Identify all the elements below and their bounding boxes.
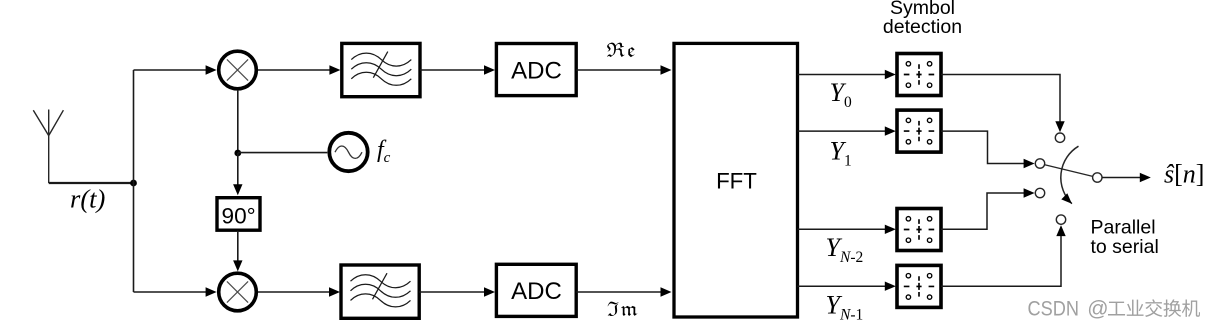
svg-text:ADC: ADC [511, 57, 562, 84]
svg-text:CSDN: CSDN [1028, 297, 1080, 320]
mixer M1 (I branch) [219, 51, 257, 89]
svg-text:YN-2: YN-2 [826, 233, 864, 266]
switch contact top [1055, 133, 1064, 142]
symbol detector D3 [897, 209, 941, 251]
antenna [33, 110, 63, 184]
wire FFT output Y1 [798, 130, 887, 132]
node B (LO junction) [234, 150, 241, 157]
FFT block [674, 43, 798, 317]
svg-text:to serial: to serial [1091, 236, 1159, 258]
switch pivot contact [1093, 173, 1102, 182]
wire D2 to switch left contact 1 [941, 131, 1024, 163]
svg-text:YN-1: YN-1 [826, 291, 864, 324]
wire oscillator to node B [238, 152, 327, 154]
wire D4 to switch bottom contact [941, 236, 1061, 287]
wire ADC1 to FFT [576, 69, 661, 71]
svg-text:90°: 90° [222, 203, 256, 228]
switch rotation arc arrow [1061, 146, 1079, 204]
svg-text:@: @ [1087, 297, 1108, 320]
wire mixer M2 to filter F2 [258, 291, 330, 293]
filter F2 (lowpass) [341, 265, 419, 318]
wire antenna to junction [49, 182, 134, 184]
switch contact bottom [1056, 215, 1065, 224]
node junction on trunk [130, 180, 137, 187]
wire trunk vertical [133, 70, 135, 292]
wire 90 deg box to mixer M2 [237, 231, 239, 262]
svg-text:fc: fc [377, 137, 391, 166]
switch contact left 1 [1035, 159, 1044, 168]
label Re (real part, fraktur) [607, 43, 635, 57]
wire FFT output YN-2 [798, 228, 887, 230]
wire D3 to switch left contact 2 [941, 193, 1024, 229]
filter F1 (lowpass) [342, 43, 420, 96]
symbol detector D4 [897, 265, 941, 307]
oscillator fc [329, 133, 367, 171]
phase shifter 90deg box [217, 198, 260, 231]
ADC1 [496, 44, 576, 96]
wire mixer M1 to node B [237, 91, 239, 153]
svg-text:FFT: FFT [716, 169, 757, 194]
wire mixer M1 to filter F1 [258, 69, 330, 71]
mixer M2 (Q branch) [219, 273, 257, 311]
wire switch to output [1102, 177, 1140, 179]
svg-text:detection: detection [883, 16, 962, 38]
wire ADC2 to FFT [576, 291, 661, 293]
svg-text:ADC: ADC [511, 278, 562, 305]
wire trunk to mixer Q [134, 291, 207, 293]
svg-text:Y0: Y0 [830, 78, 852, 111]
label Im (imaginary part, fraktur) [608, 302, 638, 316]
switch wiper arm [1045, 165, 1093, 177]
svg-text:ŝ[n]: ŝ[n] [1164, 160, 1204, 189]
watermark CJK chars [1108, 299, 1200, 317]
symbol detector D2 [897, 110, 941, 152]
ADC2 [496, 264, 576, 316]
wire FFT output YN-1 [798, 285, 887, 287]
wire node B to 90 deg box [237, 153, 239, 186]
svg-text:Y1: Y1 [830, 136, 852, 169]
switch contact left 2 [1035, 188, 1044, 197]
wire filter F2 to ADC2 [419, 291, 485, 293]
symbol detector D1 [897, 54, 941, 96]
wire FFT output Y0 [798, 74, 887, 76]
wire D1 to switch top contact [941, 75, 1060, 122]
wire filter F1 to ADC1 [420, 69, 485, 71]
svg-text:r(t): r(t) [70, 184, 106, 214]
wire trunk to mixer I [134, 69, 207, 71]
